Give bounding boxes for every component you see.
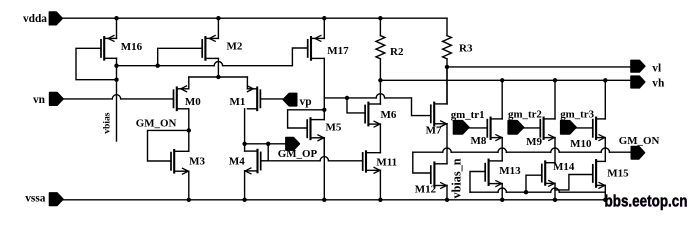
svg-text:M15: M15 xyxy=(607,167,629,179)
svg-text:M17: M17 xyxy=(327,45,349,57)
svg-text:M11: M11 xyxy=(376,156,397,168)
svg-text:gm_tr1: gm_tr1 xyxy=(451,109,485,121)
svg-text:vn: vn xyxy=(33,94,46,106)
svg-text:gm_tr3: gm_tr3 xyxy=(560,108,594,120)
svg-text:M12: M12 xyxy=(415,183,437,195)
svg-text:R2: R2 xyxy=(390,46,404,58)
svg-text:R3: R3 xyxy=(459,43,473,55)
svg-text:M16: M16 xyxy=(121,41,143,53)
svg-text:vbias: vbias xyxy=(102,112,113,134)
svg-text:M1: M1 xyxy=(230,96,246,108)
svg-text:gm_tr2: gm_tr2 xyxy=(508,109,542,121)
svg-text:M13: M13 xyxy=(499,165,521,177)
svg-text:GM_ON: GM_ON xyxy=(136,118,177,130)
svg-text:M4: M4 xyxy=(229,155,245,167)
svg-text:bbs.eetop.cn: bbs.eetop.cn xyxy=(605,192,688,211)
svg-text:GM_ON: GM_ON xyxy=(619,135,660,147)
svg-text:M8: M8 xyxy=(471,135,487,147)
svg-text:M9: M9 xyxy=(526,136,542,148)
svg-text:M3: M3 xyxy=(189,155,205,167)
svg-text:vh: vh xyxy=(652,78,665,90)
svg-text:vdda: vdda xyxy=(23,13,47,25)
svg-text:vssa: vssa xyxy=(25,192,46,204)
svg-text:M10: M10 xyxy=(570,138,592,150)
svg-text:M14: M14 xyxy=(553,161,575,173)
svg-text:M5: M5 xyxy=(326,121,342,133)
svg-text:vbias_n: vbias_n xyxy=(449,158,463,198)
svg-text:vp: vp xyxy=(300,96,312,108)
svg-text:M6: M6 xyxy=(381,109,397,121)
svg-text:vl: vl xyxy=(652,62,661,74)
svg-text:GM_OP: GM_OP xyxy=(278,148,318,160)
svg-text:M0: M0 xyxy=(185,96,201,108)
svg-text:M7: M7 xyxy=(426,124,442,136)
svg-text:M2: M2 xyxy=(227,40,243,52)
